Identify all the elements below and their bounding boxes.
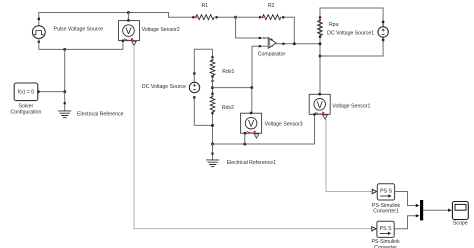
wire Rdv2 bottom to rail	[212, 115, 214, 145]
svg-text:PS-Simulink: PS-Simulink	[371, 239, 400, 245]
svg-text:V: V	[317, 100, 323, 110]
resistor Rdv1	[210, 56, 234, 82]
wire ground1 drop	[212, 144, 214, 160]
svg-text:R2: R2	[268, 3, 275, 9]
svg-text:PS S: PS S	[380, 189, 392, 195]
node rail sensor3 junction	[243, 143, 246, 146]
wire R2 right down to output net	[285, 17, 295, 44]
wire DC Voltage Source1 return	[320, 41, 383, 56]
meter U4 Voltage Sensor2	[119, 19, 180, 45]
wire mux to scope	[423, 209, 448, 211]
svg-text:PS S: PS S	[380, 226, 392, 232]
wire divider junction to sensor3 net	[213, 87, 253, 89]
block U3 Solver Configuration	[10, 83, 41, 115]
voltage source V2 DC Voltage Source	[142, 72, 200, 98]
svg-text:DC Voltage Source1: DC Voltage Source1	[327, 30, 374, 36]
voltage source U2 DC Voltage Source1	[327, 21, 388, 42]
svg-text:Voltage Sensor2: Voltage Sensor2	[142, 27, 180, 33]
wire comparator minus input	[252, 46, 268, 87]
svg-text:Rdv1: Rdv1	[222, 69, 234, 75]
node Rdv divider junction	[211, 86, 214, 89]
svg-text:Scope: Scope	[453, 220, 468, 226]
scope Scope	[452, 202, 468, 227]
node sensor3 net junction	[250, 86, 253, 89]
meter U5 Voltage Sensor3	[241, 112, 303, 138]
svg-text:Pulse Voltage Source: Pulse Voltage Source	[54, 27, 104, 33]
resistor R2	[259, 3, 285, 20]
pin comparator plus port marker	[259, 37, 261, 39]
wire solver to ground net	[40, 91, 65, 93]
pin scope input arrow	[448, 209, 452, 212]
pin comparator minus port marker	[259, 45, 261, 47]
node output/Rpu junction	[319, 42, 322, 45]
wire ground rail1	[213, 143, 315, 145]
block U7 PS-Simulink Converter1	[372, 184, 401, 215]
block U8 PS-Simulink Converter	[371, 221, 400, 248]
svg-text:R1: R1	[202, 3, 209, 9]
ground Electrical Reference	[59, 111, 124, 118]
svg-text:V: V	[248, 119, 254, 129]
ground Electrical Reference1	[207, 160, 277, 167]
wire PS converter output to mux	[394, 216, 415, 229]
node DC source1 return junction	[319, 55, 322, 58]
wire down to Voltage Sensor3 top	[251, 88, 253, 114]
svg-text:Configuration: Configuration	[10, 109, 41, 115]
wire junction down to Voltage Sensor2 top	[127, 13, 129, 21]
node rail ground junction	[211, 143, 214, 146]
wire comparator output to Rpu net	[276, 43, 320, 45]
wire R1 to node A	[218, 16, 236, 18]
wire ground drop	[64, 49, 66, 110]
node A junction R1/R2	[234, 16, 237, 19]
node R2 feedback junction	[293, 42, 296, 45]
mux Mux1	[420, 200, 423, 220]
resistor R1	[192, 3, 218, 20]
svg-text:Rdv2: Rdv2	[222, 105, 234, 111]
pin mux input arrow 2	[416, 214, 420, 217]
op-amp Comparator	[258, 38, 286, 58]
node top junction	[127, 11, 130, 14]
svg-text:Comparator: Comparator	[258, 51, 286, 57]
node solver junction	[63, 90, 66, 93]
wire Rpu vertical net	[319, 8, 321, 94]
svg-text:Electrical Reference1: Electrical Reference1	[227, 160, 276, 166]
wire DC Voltage Source top to Rdv1	[194, 49, 212, 72]
wire top loop from Pulse Voltage Source to R1	[39, 13, 193, 26]
node DC return junction	[211, 124, 214, 127]
wire node A down to comparator plus input	[236, 17, 268, 38]
svg-text:f(x) = 0: f(x) = 0	[18, 89, 34, 95]
voltage source V1 Pulse Voltage Source	[32, 18, 103, 43]
svg-text:Voltage Sensor3: Voltage Sensor3	[265, 121, 303, 127]
svg-text:V: V	[125, 26, 131, 36]
wire Voltage Sensor1 PS output	[326, 120, 372, 192]
pin comparator output port marker	[282, 43, 284, 45]
wire DC Voltage Source bottom return	[194, 99, 212, 126]
wire Voltage Sensor2 PS output long wire	[134, 46, 372, 229]
resistor Rpu	[318, 16, 339, 38]
resistor Rdv2	[210, 92, 234, 114]
node ground rail junction	[63, 48, 66, 51]
wire top rail to DC Voltage Source1	[320, 8, 383, 22]
wire Rdv1 to Rdv2	[212, 78, 214, 93]
wire Voltage Sensor1 bottom to rail	[314, 116, 316, 144]
svg-text:Rpu: Rpu	[329, 22, 339, 28]
svg-text:Converter1: Converter1	[373, 209, 399, 215]
wire node A to R2	[236, 16, 259, 18]
wire PS converter1 output to mux	[395, 192, 416, 206]
pin ground port marker	[64, 102, 66, 104]
wire Voltage Sensor3 bottom to rail	[244, 135, 246, 144]
pin ground1 port marker	[211, 153, 213, 155]
pin mux input arrow 1	[416, 204, 420, 207]
wire pulse source bottom rail to Voltage Sensor2	[39, 39, 123, 50]
svg-text:Voltage Sensor1: Voltage Sensor1	[332, 103, 370, 109]
svg-text:DC Voltage Source: DC Voltage Source	[142, 84, 186, 90]
svg-text:Electrical Reference: Electrical Reference	[77, 112, 124, 118]
meter U6 Voltage Sensor1	[309, 93, 370, 119]
